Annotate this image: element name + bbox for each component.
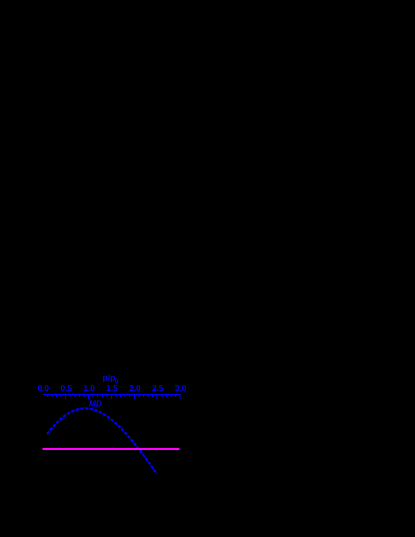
svg-text:0.5: 0.5 (61, 384, 73, 393)
svg-text:2.0: 2.0 (129, 384, 141, 393)
svg-text:MD: MD (89, 399, 102, 409)
svg-text:1.5: 1.5 (106, 384, 118, 393)
svg-text:3.0: 3.0 (175, 384, 187, 393)
svg-text:2.5: 2.5 (152, 384, 164, 393)
svg-text:p/p: p/p (103, 373, 116, 383)
svg-text:1.0: 1.0 (83, 384, 95, 393)
svg-text:0.0: 0.0 (38, 384, 50, 393)
